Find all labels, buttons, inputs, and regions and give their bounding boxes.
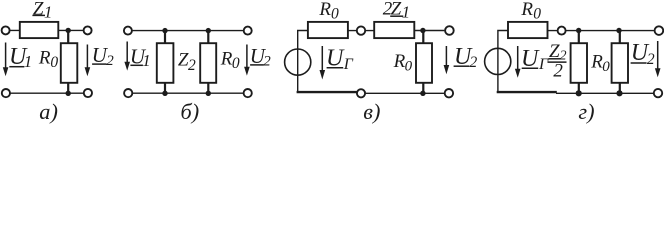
svg-text:1: 1: [24, 52, 33, 71]
svg-text:R: R: [520, 0, 533, 20]
svg-text:2: 2: [106, 53, 114, 69]
svg-text:U: U: [521, 46, 540, 72]
svg-text:в): в): [363, 99, 380, 124]
svg-text:2: 2: [188, 57, 196, 74]
svg-text:2: 2: [553, 60, 563, 81]
svg-text:Г: Г: [343, 56, 354, 73]
svg-text:1: 1: [44, 3, 53, 22]
svg-text:2: 2: [470, 54, 478, 71]
svg-text:0: 0: [533, 5, 541, 22]
svg-text:0: 0: [232, 55, 240, 72]
svg-text:0: 0: [50, 54, 58, 71]
svg-text:R: R: [38, 48, 51, 69]
svg-text:R: R: [220, 48, 233, 69]
svg-text:2: 2: [647, 51, 655, 68]
svg-text:а): а): [39, 99, 58, 124]
svg-text:Г: Г: [538, 56, 549, 73]
svg-text:0: 0: [331, 5, 339, 22]
svg-text:Z: Z: [549, 41, 560, 62]
svg-text:0: 0: [405, 58, 413, 74]
svg-text:0: 0: [602, 59, 610, 75]
svg-text:R: R: [318, 0, 331, 20]
svg-text:Z: Z: [391, 0, 402, 20]
svg-text:Z: Z: [33, 0, 44, 20]
svg-text:1: 1: [402, 2, 411, 21]
svg-text:1: 1: [142, 51, 151, 70]
svg-text:2: 2: [263, 54, 271, 70]
svg-text:б): б): [181, 99, 200, 124]
svg-text:г): г): [578, 99, 594, 124]
svg-text:U: U: [326, 45, 345, 71]
